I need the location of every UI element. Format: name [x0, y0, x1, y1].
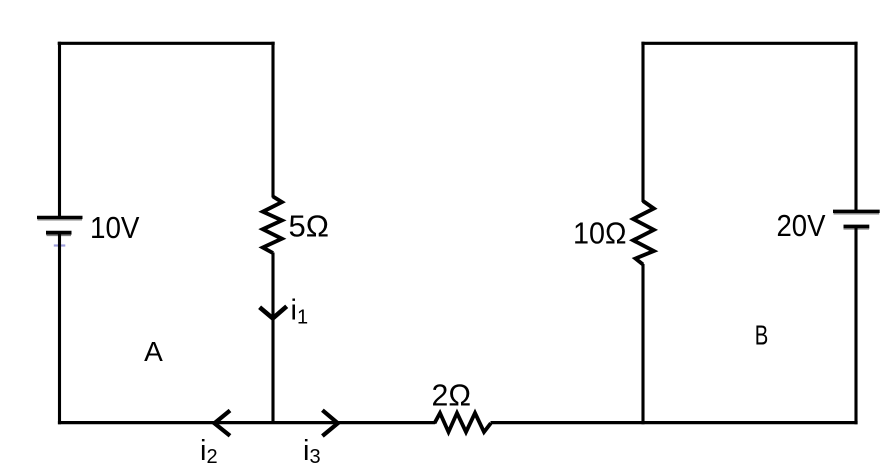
- arrow: current i2 (leftward arrowhead): [214, 411, 230, 436]
- label: node A: [144, 336, 163, 367]
- arrow: current i3 (rightward arrowhead): [322, 410, 337, 436]
- wire: 10-ohm branch upper vertical: [641, 42, 644, 202]
- svg-text:10Ω: 10Ω: [573, 216, 627, 251]
- wire: 20V branch lower vertical: [854, 227, 857, 425]
- svg-text:B: B: [755, 320, 769, 351]
- wire: loop A left vertical upper (to battery): [58, 42, 61, 219]
- svg-text:A: A: [144, 336, 163, 367]
- resistor R1 5-ohm zigzag: [263, 197, 282, 254]
- svg-text:10V: 10V: [90, 210, 140, 245]
- wire: 5-ohm branch upper vertical: [271, 42, 274, 198]
- label: 10-ohm value: [573, 216, 627, 251]
- svg-text:2Ω: 2Ω: [432, 378, 472, 413]
- resistor R2 10-ohm zigzag: [633, 201, 654, 265]
- svg-text:20V: 20V: [777, 208, 826, 243]
- wire: bottom left segment (node to 2-ohm): [58, 421, 435, 424]
- label: current i3: [303, 435, 321, 468]
- wire: loop B top horizontal: [641, 42, 857, 45]
- label: current i2: [200, 435, 218, 468]
- label: 20V value: [777, 208, 826, 243]
- label: node B: [755, 320, 769, 351]
- battery 20V long plate (+): [833, 211, 880, 213]
- battery 10V long plate (+): [37, 217, 83, 219]
- label: 2-ohm value: [432, 378, 472, 413]
- wire: 5-ohm branch lower vertical (to bottom node): [271, 253, 274, 423]
- artifact: faint blue mark under battery: [54, 244, 66, 246]
- wire: 20V branch upper vertical: [854, 42, 857, 213]
- battery 10V short plate (-): [46, 233, 72, 236]
- svg-text:5Ω: 5Ω: [289, 209, 330, 244]
- resistor R3 2-ohm zigzag (horizontal): [435, 413, 491, 432]
- arrow: current i1 (downward arrowhead): [260, 306, 287, 318]
- wire: bottom right segment (2-ohm to loop B): [491, 421, 858, 424]
- label: 5-ohm value: [289, 209, 330, 244]
- label: current i1: [291, 295, 309, 329]
- wire: 10-ohm branch lower vertical: [641, 264, 644, 424]
- wire: loop A left vertical lower (battery to bottom): [58, 233, 61, 425]
- label: 10V value: [90, 210, 140, 245]
- wire: loop A top horizontal: [58, 42, 275, 45]
- battery 20V short plate (-): [844, 227, 870, 229]
